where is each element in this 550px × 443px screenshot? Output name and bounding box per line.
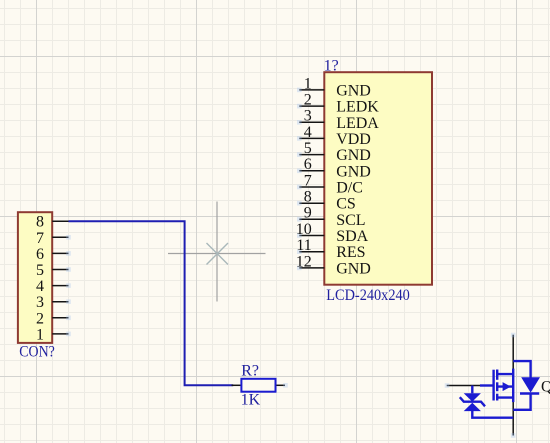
svg-text:LEDA: LEDA (336, 115, 379, 132)
cursor X mark (207, 243, 229, 265)
body stub (497, 385, 513, 387)
pin 9 (SCL) of 1? (297, 205, 366, 229)
pin 4 of CON? (36, 278, 71, 295)
wire pin8 of CON? to R? (net) (69, 221, 234, 385)
transistor Q drain pin (black, top) (512, 335, 514, 369)
transistor Q MOSFET symbol (480, 369, 513, 403)
channel segments (496, 370, 498, 380)
svg-text:VDD: VDD (336, 131, 371, 148)
pin 11 (RES) of 1? (296, 237, 365, 261)
svg-text:6: 6 (36, 246, 44, 263)
source stub + vertical (497, 396, 513, 398)
pin 4 (VDD) of 1? (297, 124, 371, 148)
svg-text:GND: GND (336, 147, 371, 164)
pin 3 (LEDA) of 1? (297, 108, 379, 132)
IC 1? LCD-240x240 body (324, 72, 432, 285)
svg-text:GND: GND (336, 260, 371, 277)
pin 8 (CS) of 1? (297, 189, 356, 213)
pin 8 of CON? (36, 214, 69, 231)
svg-text:1?: 1? (324, 58, 339, 75)
drain-source vertical (512, 369, 514, 403)
svg-text:2: 2 (36, 310, 44, 327)
transistor Q gate pin (black, left) (447, 385, 481, 387)
svg-text:LEDK: LEDK (336, 99, 379, 116)
svg-text:SCL: SCL (336, 212, 365, 229)
pin 6 (GND) of 1? (297, 156, 371, 180)
svg-text:12: 12 (296, 253, 312, 270)
pin 2 of CON? (36, 310, 71, 327)
svg-text:CON?: CON? (19, 343, 55, 360)
connector CON? body (18, 212, 52, 343)
pin 3 of CON? (36, 294, 71, 311)
pin 1 (GND) of 1? (297, 75, 371, 99)
gate lead (480, 384, 494, 386)
svg-text:7: 7 (304, 172, 312, 189)
svg-text:GND: GND (336, 82, 371, 99)
svg-text:5: 5 (304, 140, 312, 157)
svg-text:1: 1 (36, 326, 44, 343)
svg-text:1: 1 (304, 75, 312, 92)
svg-text:3: 3 (304, 108, 312, 125)
resistor R? body (241, 379, 275, 392)
resistor R? pins (232, 383, 288, 388)
svg-text:LCD-240x240: LCD-240x240 (326, 287, 410, 304)
substrate arrow of Q (503, 382, 511, 391)
pin 7 (D/C) of 1? (297, 172, 363, 196)
svg-text:CS: CS (336, 196, 356, 213)
svg-text:3: 3 (36, 294, 44, 311)
svg-text:10: 10 (296, 221, 312, 238)
pin 5 (GND) of 1? (297, 140, 371, 164)
svg-text:9: 9 (304, 205, 312, 222)
pin 10 (SDA) of 1? (296, 221, 369, 245)
pin 12 (GND) of 1? (296, 253, 371, 277)
svg-text:Q?: Q? (541, 378, 550, 395)
pin 7 of CON? (36, 230, 71, 247)
svg-text:2: 2 (304, 92, 312, 109)
transistor Q source pin (black, bottom) (512, 402, 514, 436)
svg-text:8: 8 (304, 189, 312, 206)
pin 5 of CON? (36, 262, 71, 279)
cursor crosshair (168, 202, 266, 302)
drain stub (497, 373, 513, 375)
pin 1 of CON? (36, 326, 71, 343)
pin 2 (LEDK) of 1? (297, 92, 379, 116)
svg-text:D/C: D/C (336, 180, 363, 197)
body diode of Q (513, 361, 539, 410)
svg-text:R?: R? (241, 363, 259, 380)
svg-text:1K: 1K (241, 392, 261, 409)
gate protection zener (TVS) of Q (460, 386, 513, 418)
svg-text:GND: GND (336, 163, 371, 180)
svg-text:4: 4 (36, 278, 44, 295)
svg-text:11: 11 (296, 237, 311, 254)
gate bar (492, 370, 494, 401)
svg-text:7: 7 (36, 230, 44, 247)
svg-text:RES: RES (336, 244, 365, 261)
svg-text:5: 5 (36, 262, 44, 279)
svg-text:SDA: SDA (336, 228, 368, 245)
pin 6 of CON? (36, 246, 71, 263)
svg-text:8: 8 (36, 214, 44, 231)
svg-text:4: 4 (304, 124, 312, 141)
svg-text:6: 6 (304, 156, 312, 173)
